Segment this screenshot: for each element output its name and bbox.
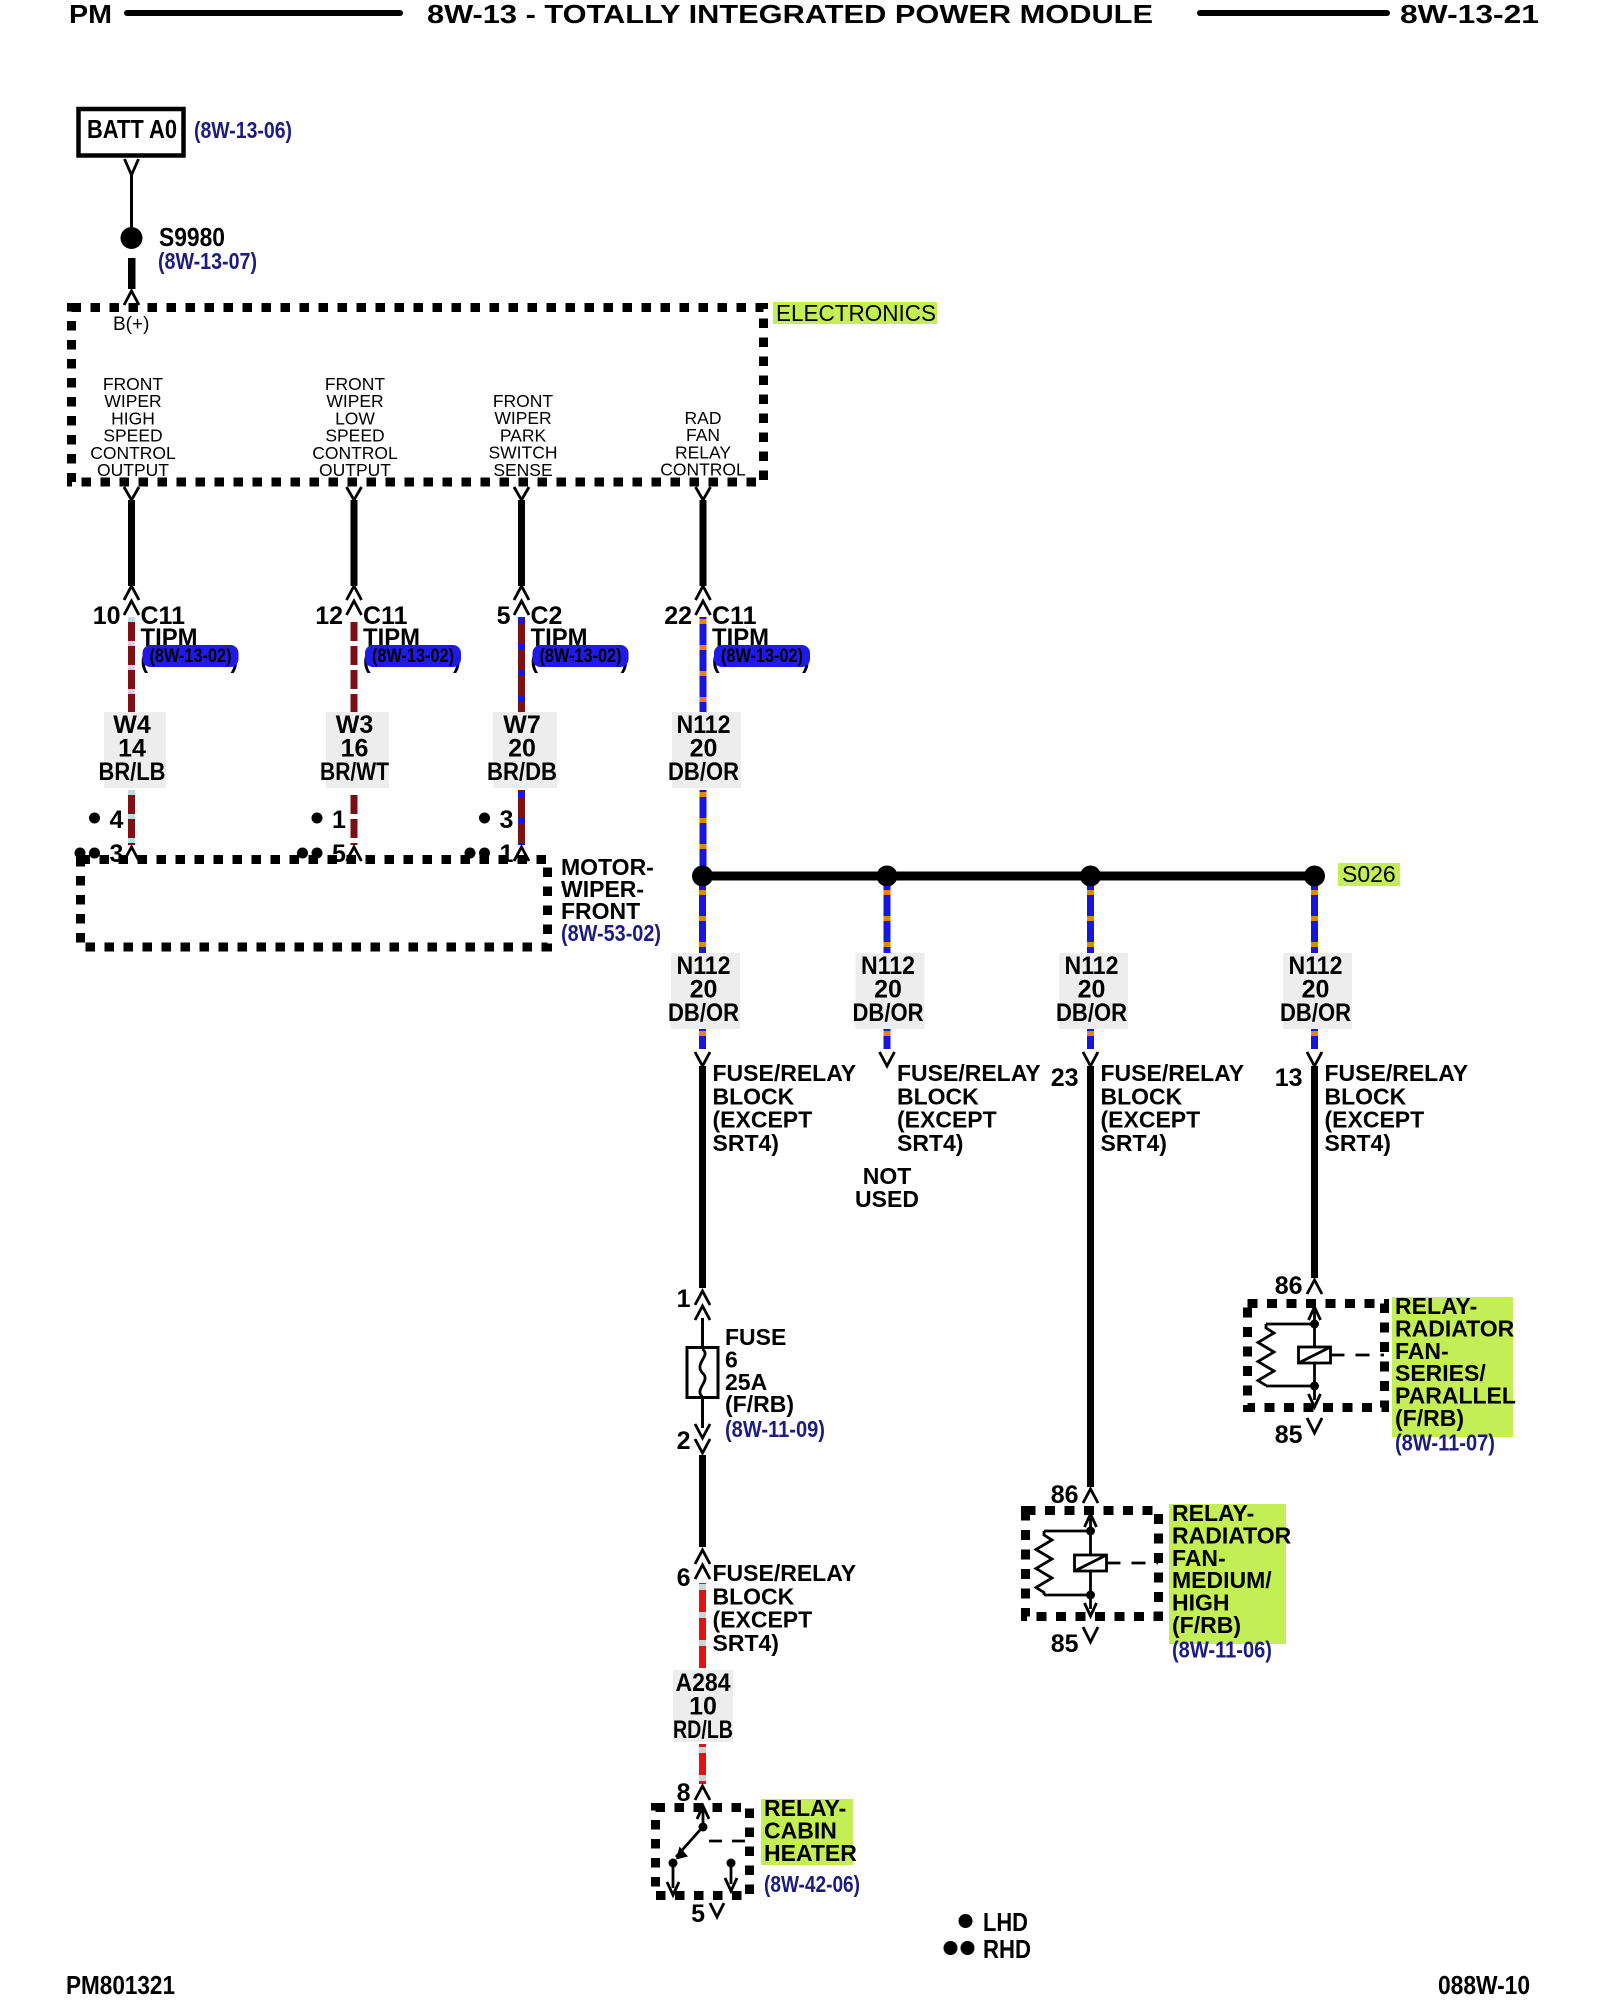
connector chevron (TIPM side) x=131.5	[124, 487, 139, 500]
svg-text:RD/LB: RD/LB	[673, 1716, 733, 1744]
legend LHD	[959, 1907, 1029, 1937]
relay-radiator fan-series/parallel relay symbol	[1258, 1307, 1384, 1407]
pin 85	[1275, 1418, 1322, 1449]
svg-text:(F/RB): (F/RB)	[1172, 1612, 1241, 1638]
pin label rad fan relay control	[660, 408, 746, 480]
connector chevron (TIPM side) x=703	[696, 487, 711, 500]
wire to fuse/relay block	[699, 1455, 706, 1547]
connector chevron pin 86	[1083, 1489, 1098, 1503]
svg-text:DB/OR: DB/OR	[853, 999, 924, 1027]
wire out of fuse	[701, 1397, 704, 1428]
svg-text:SRT4): SRT4)	[1325, 1130, 1391, 1156]
wire N112 DB/OR branch x=1090.5 upper	[1087, 886, 1094, 953]
svg-text:SRT4): SRT4)	[713, 1630, 779, 1656]
svg-text:FUSE/RELAY: FUSE/RELAY	[713, 1060, 857, 1086]
svg-text:1: 1	[677, 1285, 691, 1313]
svg-text:BLOCK: BLOCK	[1325, 1083, 1407, 1109]
pin 1 (RHD)	[465, 840, 514, 868]
svg-text:BLOCK: BLOCK	[713, 1083, 795, 1109]
svg-text:BLOCK: BLOCK	[713, 1583, 795, 1609]
svg-text:10: 10	[93, 602, 121, 630]
svg-text:FUSE/RELAY: FUSE/RELAY	[897, 1060, 1041, 1086]
svg-text:23: 23	[1051, 1064, 1079, 1092]
connector chevron into motor-wiper-front	[347, 847, 362, 861]
svg-text:ELECTRONICS: ELECTRONICS	[776, 300, 936, 326]
legend RHD	[944, 1934, 1032, 1964]
wire TIPM output x=521.5	[518, 500, 525, 586]
connector chevron into motor-wiper-front	[514, 847, 529, 861]
wire N112 DB/OR branch x=1314.5 upper	[1311, 886, 1318, 953]
wire TIPM output x=354	[351, 500, 358, 586]
svg-text:(F/RB): (F/RB)	[1395, 1405, 1464, 1431]
wire splice to TIPM	[128, 258, 136, 289]
label relay-radiator fan-series/parallel	[1392, 1293, 1516, 1437]
relay-cabin heater switch symbol	[667, 1806, 751, 1895]
connector chevrons pin 6	[695, 1550, 710, 1579]
svg-text:(8W-13-06): (8W-13-06)	[194, 117, 292, 143]
TIPM connector reference bar (8W-13-02)	[712, 645, 810, 673]
wire N112 lower segment	[700, 790, 707, 866]
svg-text:(8W-11-06): (8W-11-06)	[1172, 1636, 1272, 1662]
svg-text:(8W-13-02): (8W-13-02)	[721, 646, 803, 667]
svg-text:12: 12	[315, 602, 343, 630]
svg-text:DB/OR: DB/OR	[668, 999, 739, 1027]
svg-text:6: 6	[677, 1564, 691, 1592]
relay-cabin heater dashed box	[656, 1808, 750, 1896]
svg-text:SENSE: SENSE	[493, 460, 552, 480]
svg-text:(8W-13-02): (8W-13-02)	[540, 646, 622, 667]
pin label front wiper park switch sense	[488, 391, 557, 480]
connector chevrons pin 2	[695, 1424, 710, 1453]
pin label front wiper high speed control output	[90, 374, 176, 480]
svg-text:85: 85	[1275, 1421, 1303, 1449]
svg-text:DB/OR: DB/OR	[1056, 999, 1127, 1027]
label FUSE/RELAY BLOCK x=1314.5	[1325, 1060, 1469, 1156]
wire W3 lower segment	[351, 790, 358, 845]
relay-radiator fan-medium/high dashed box	[1026, 1511, 1159, 1617]
label RELAY-CABIN HEATER	[761, 1795, 857, 1866]
label FUSE/RELAY BLOCK x=1090.5	[1101, 1060, 1245, 1156]
svg-text:LHD: LHD	[983, 1907, 1028, 1937]
wire branch1 to fuse	[699, 1066, 706, 1288]
node S026	[1338, 861, 1400, 887]
wire to relay-radiator fan-medium/high	[1087, 1066, 1094, 1487]
label relay-radiator fan-medium/high	[1169, 1500, 1292, 1644]
svg-text:SRT4): SRT4)	[713, 1130, 779, 1156]
svg-text:(EXCEPT: (EXCEPT	[713, 1607, 813, 1633]
svg-text:DB/OR: DB/OR	[1280, 999, 1351, 1027]
TIPM ELECTRONICS dashed box	[72, 308, 764, 483]
svg-text:86: 86	[1275, 1272, 1303, 1300]
pin 5 (RHD)	[297, 840, 346, 868]
wire label W3	[320, 711, 389, 788]
svg-text:BR/WT: BR/WT	[320, 758, 389, 786]
svg-text:USED: USED	[855, 1186, 919, 1212]
wire N112 DB/OR branch x=1314.5 lower	[1311, 1029, 1318, 1049]
wire label N112	[1280, 952, 1352, 1029]
motor-wiper-front dashed box	[81, 860, 548, 948]
connector chevron pin 86	[1307, 1280, 1322, 1294]
pin 5	[691, 1900, 724, 1928]
svg-text:PM801321: PM801321	[66, 1970, 175, 2000]
wire W4 upper segment	[128, 617, 135, 712]
svg-text:86: 86	[1051, 1481, 1079, 1509]
connector chevron into fuse/relay block	[1083, 1052, 1098, 1066]
wire A284 RD/LB upper	[699, 1583, 706, 1668]
svg-text:1: 1	[332, 806, 346, 834]
svg-text:(EXCEPT: (EXCEPT	[1101, 1107, 1201, 1133]
svg-text:B(+): B(+)	[113, 314, 149, 335]
connector chevron into motor-wiper-front	[124, 847, 139, 861]
svg-text:S026: S026	[1342, 861, 1396, 887]
wire N112 DB/OR branch x=887 lower	[884, 1029, 891, 1049]
svg-text:FUSE/RELAY: FUSE/RELAY	[1101, 1060, 1245, 1086]
label FUSE/RELAY BLOCK (lower)	[713, 1560, 857, 1656]
svg-text:FUSE/RELAY: FUSE/RELAY	[1325, 1060, 1469, 1086]
svg-text:8W-13-21: 8W-13-21	[1400, 0, 1539, 29]
wire label N112	[1056, 952, 1128, 1029]
wire N112 DB/OR branch x=887 upper	[884, 886, 891, 953]
wire W7 upper segment	[518, 617, 525, 712]
svg-text:(8W-11-07): (8W-11-07)	[1395, 1429, 1495, 1455]
svg-text:BATT A0: BATT A0	[87, 114, 177, 144]
svg-text:BLOCK: BLOCK	[897, 1083, 979, 1109]
wire into fuse	[701, 1318, 704, 1348]
TIPM connector reference bar (8W-13-02)	[141, 645, 239, 673]
relay-radiator fan-medium/high relay symbol	[1036, 1514, 1158, 1616]
svg-text:(8W-11-09): (8W-11-09)	[725, 1416, 825, 1442]
wire TIPM output x=703	[700, 500, 707, 586]
label FUSE/RELAY BLOCK x=702.5	[713, 1060, 857, 1156]
splice S9980	[121, 227, 143, 249]
wire label N112	[668, 952, 740, 1029]
wire label A284	[673, 1669, 733, 1744]
wire label N112	[668, 711, 741, 788]
svg-text:(8W-13-02): (8W-13-02)	[372, 646, 454, 667]
connector chevron into fuse/relay block	[695, 1052, 710, 1066]
wire W7 lower segment	[518, 790, 525, 845]
label FUSE/RELAY BLOCK x=887	[897, 1060, 1041, 1156]
connector chevron (TIPM side) x=354	[347, 487, 362, 500]
svg-text:(EXCEPT: (EXCEPT	[713, 1107, 813, 1133]
wire to relay-radiator fan-series/parallel	[1311, 1066, 1318, 1278]
svg-text:5: 5	[691, 1900, 705, 1928]
pin 1 (LHD)	[312, 806, 347, 834]
svg-text:2: 2	[677, 1427, 691, 1455]
svg-text:OUTPUT: OUTPUT	[319, 460, 391, 480]
svg-text:FUSE/RELAY: FUSE/RELAY	[713, 1560, 857, 1586]
wire W3 upper segment	[351, 617, 358, 712]
header rule left	[127, 10, 400, 16]
svg-text:4: 4	[110, 806, 124, 834]
svg-text:13: 13	[1275, 1064, 1303, 1092]
svg-text:22: 22	[664, 602, 692, 630]
svg-text:088W-10: 088W-10	[1438, 1970, 1530, 2000]
svg-text:(EXCEPT: (EXCEPT	[897, 1107, 997, 1133]
svg-text:BR/LB: BR/LB	[99, 758, 166, 786]
wire N112 DB/OR branch x=702.5 lower	[699, 1029, 706, 1049]
svg-text:(8W-13-02): (8W-13-02)	[150, 646, 232, 667]
pin 4 (LHD)	[89, 806, 124, 834]
svg-text:(8W-53-02): (8W-53-02)	[561, 920, 661, 946]
svg-text:(F/RB): (F/RB)	[725, 1391, 794, 1417]
svg-text:DB/OR: DB/OR	[668, 758, 739, 786]
fuse 6 25A	[687, 1348, 718, 1398]
wire TIPM output x=131.5	[128, 500, 135, 586]
connector chevron pin 8	[695, 1786, 710, 1800]
svg-text:OUTPUT: OUTPUT	[97, 460, 169, 480]
wire label W4	[99, 711, 167, 788]
TIPM connector reference bar (8W-13-02)	[363, 645, 461, 673]
label MOTOR-WIPER-FRONT	[561, 854, 654, 924]
pin 85	[1051, 1627, 1098, 1658]
label ELECTRONICS	[773, 302, 937, 324]
pin 3 (LHD)	[479, 806, 513, 834]
svg-text:HEATER: HEATER	[764, 1840, 857, 1866]
wire N112 DB/OR branch x=702.5 upper	[699, 886, 706, 953]
connector chevron into fuse/relay block	[880, 1052, 895, 1066]
connector chevron into fuse/relay block	[1307, 1052, 1322, 1066]
TIPM connector reference bar (8W-13-02)	[531, 645, 629, 673]
wire N112 upper segment	[700, 617, 707, 712]
svg-text:BR/DB: BR/DB	[487, 758, 557, 786]
connector C2 pin 5 chevrons	[514, 586, 529, 600]
wire A284 RD/LB lower	[699, 1744, 706, 1784]
wire battery to splice S9980	[130, 175, 133, 228]
svg-text:RHD: RHD	[983, 1934, 1031, 1964]
svg-text:8: 8	[677, 1779, 691, 1807]
connector C11 pin 12 chevrons	[347, 586, 362, 600]
connector chevron (TIPM side) x=521.5	[514, 487, 529, 500]
header rule right	[1200, 10, 1387, 16]
svg-text:SRT4): SRT4)	[1101, 1130, 1167, 1156]
splice bus S026	[692, 866, 1325, 887]
svg-text:(8W-42-06): (8W-42-06)	[764, 1871, 860, 1897]
svg-text:5: 5	[497, 602, 511, 630]
svg-text:8W-13 - TOTALLY INTEGRATED POW: 8W-13 - TOTALLY INTEGRATED POWER MODULE	[427, 0, 1153, 29]
connector chevrons pin 1	[695, 1291, 710, 1320]
svg-text:3: 3	[500, 806, 514, 834]
wire label W7	[487, 711, 557, 788]
connector chevron into TIPM B(+)	[124, 291, 139, 305]
svg-text:(EXCEPT: (EXCEPT	[1325, 1107, 1425, 1133]
wire N112 DB/OR branch x=1090.5 lower	[1087, 1029, 1094, 1049]
pin 3 (RHD)	[75, 840, 124, 868]
fuse value labels	[725, 1324, 794, 1417]
label NOT USED	[855, 1163, 919, 1212]
wire label N112	[853, 952, 925, 1029]
wire W4 lower segment	[128, 790, 135, 845]
svg-text:PM: PM	[69, 0, 112, 29]
battery BATT A0	[79, 109, 184, 156]
pin label front wiper low speed control output	[312, 374, 398, 480]
connector funnel under battery	[125, 159, 139, 175]
svg-text:85: 85	[1051, 1630, 1079, 1658]
svg-text:(8W-13-07): (8W-13-07)	[158, 248, 257, 274]
svg-text:SRT4): SRT4)	[897, 1130, 963, 1156]
connector C11 pin 22 chevrons	[696, 586, 711, 600]
svg-text:BLOCK: BLOCK	[1101, 1083, 1183, 1109]
relay-radiator fan-series/parallel dashed box	[1248, 1304, 1385, 1408]
svg-text:CONTROL: CONTROL	[660, 460, 746, 480]
connector C11 pin 10 chevrons	[124, 586, 139, 600]
